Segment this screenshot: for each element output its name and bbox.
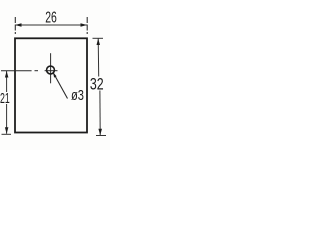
- extension line left (top dim): [14, 17, 16, 34]
- hole centerline vertical: [50, 53, 52, 83]
- arrow up of 32: [97, 39, 101, 46]
- dimension line 32 lower: [99, 91, 101, 136]
- svg-text:26: 26: [45, 10, 57, 27]
- leader line to hole: [54, 73, 68, 98]
- hole centerline horizontal (short dash): [35, 70, 39, 72]
- dimension line 21 upper: [6, 71, 8, 92]
- svg-text:21: 21: [0, 90, 10, 107]
- arrow left of 26: [15, 23, 22, 27]
- arrow right of 26: [81, 23, 88, 27]
- left dim extension bottom: [2, 133, 12, 135]
- background: [0, 0, 110, 150]
- right dim extension bottom: [96, 135, 106, 137]
- arrow up of 21: [5, 71, 8, 78]
- leader arrowhead: [53, 72, 57, 78]
- dimension line 32 upper: [97, 39, 100, 77]
- svg-text:ø3: ø3: [71, 87, 84, 104]
- arrow down of 32: [98, 129, 102, 135]
- hole centerline horizontal (through circle to right): [45, 70, 58, 72]
- right dim extension top: [93, 37, 104, 39]
- hole circle: [47, 66, 55, 74]
- svg-text:32: 32: [90, 75, 104, 93]
- extension line right (top dim): [86, 17, 88, 34]
- hole centerline horizontal (chain line, left long dash): [1, 70, 32, 72]
- part outline rectangle: [15, 38, 87, 132]
- dimension line 21 lower: [6, 104, 8, 134]
- dimension line 26: [15, 24, 87, 26]
- arrow down of 21: [5, 127, 8, 134]
